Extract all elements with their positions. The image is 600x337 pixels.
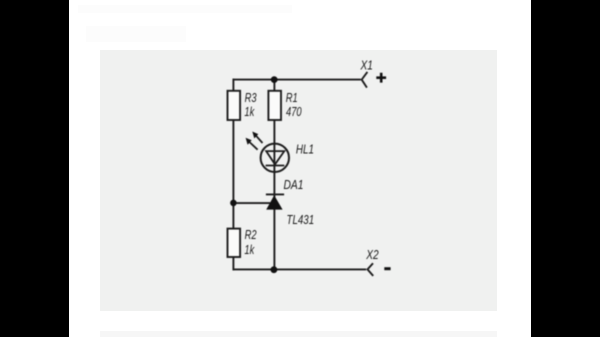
svg-text:1k: 1k	[244, 105, 255, 119]
schematic panel background	[100, 50, 498, 312]
LED HL1: cathode bar	[266, 165, 285, 167]
LED HL1: circle	[261, 144, 289, 172]
connector X2 (chevron)	[368, 263, 374, 276]
resistor R3	[228, 91, 241, 120]
polarity plus sign (X1)	[376, 73, 386, 83]
wire: left branch, R3 to R2 (through REF node)	[232, 120, 234, 230]
polarity minus sign (X2)	[384, 267, 390, 270]
svg-text:DA1: DA1	[284, 178, 304, 192]
left black letterbox bar	[0, 0, 69, 337]
resistor R2	[228, 229, 241, 257]
connector X1 (chevron)	[362, 72, 368, 88]
svg-text:R1: R1	[286, 91, 298, 105]
wire: bottom rail (left corner to X2)	[233, 268, 367, 270]
svg-text:1k: 1k	[244, 244, 255, 258]
svg-text:TL431: TL431	[287, 214, 315, 228]
TL431 DA1: body (filled triangle, apex up)	[266, 195, 282, 209]
LED HL1: anode triangle	[266, 151, 284, 164]
wire: REF line from divider node to DA1	[233, 202, 270, 204]
LED HL1: light arrow 2 shaft	[249, 142, 257, 150]
TL431 DA1: cathode bar	[266, 193, 284, 195]
faint ghost band (top white area)	[78, 5, 292, 13]
wire: right branch, node A down to R1	[273, 80, 275, 92]
svg-text:X2: X2	[365, 248, 379, 262]
wire: left branch, rail down to R3	[232, 79, 234, 92]
svg-text:R2: R2	[245, 228, 258, 242]
resistor R1	[268, 91, 281, 120]
svg-text:X1: X1	[360, 58, 373, 72]
right black letterbox bar	[531, 0, 600, 337]
svg-text:HL1: HL1	[296, 143, 314, 157]
junction dot: REF divider node	[230, 200, 237, 207]
junction dot: bottom rail	[271, 266, 278, 273]
bottom partial panel strip	[100, 331, 498, 337]
junction dot: node A (top rail)	[271, 76, 278, 83]
svg-text:R3: R3	[245, 91, 258, 105]
svg-text:470: 470	[286, 105, 302, 119]
wire: right branch, R1 through LED to TL431 and bottom rail	[273, 120, 275, 270]
LED HL1: light arrow 2 head	[246, 138, 252, 145]
LED HL1: light arrow 1 shaft	[256, 136, 263, 143]
wire: top rail (node A to X1)	[233, 79, 361, 81]
wire: left branch, R2 to bottom rail	[232, 256, 234, 270]
LED HL1: light arrow 1 head	[252, 132, 258, 139]
faint ghost blocks (top white area)	[86, 26, 186, 42]
